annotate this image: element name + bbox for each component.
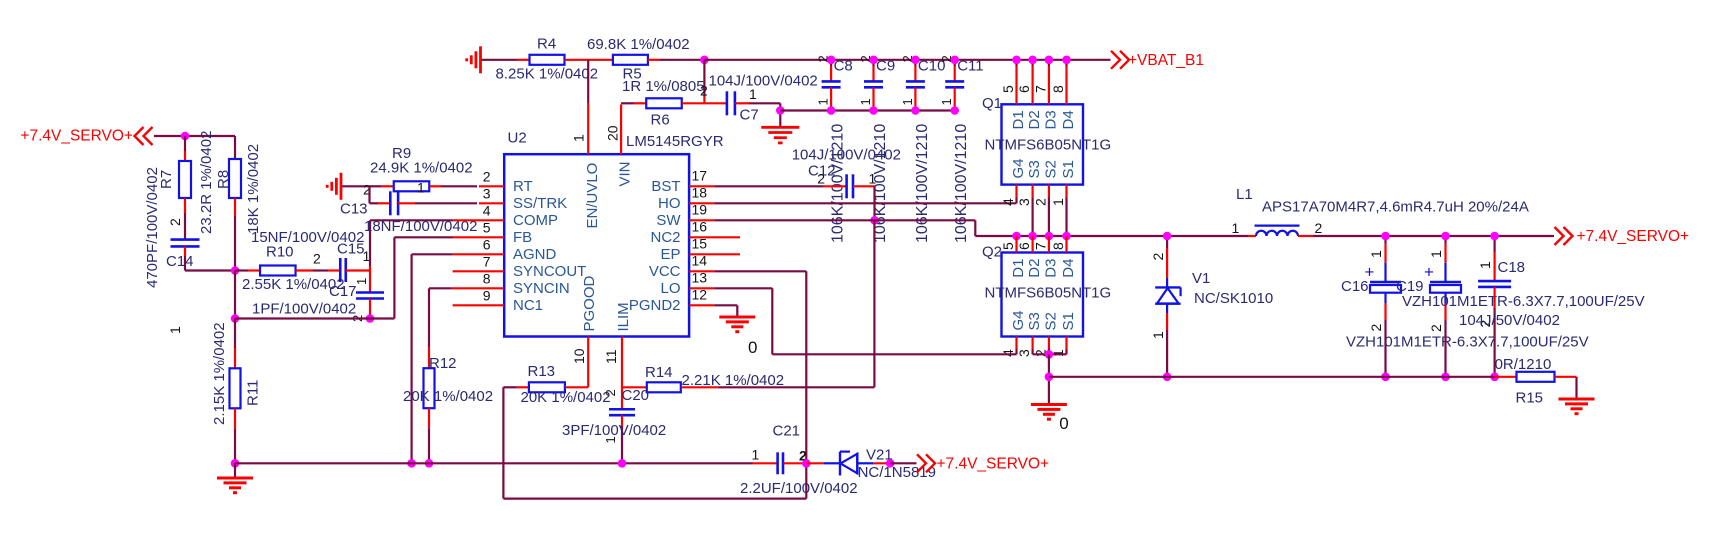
wire LO to Q2 gate xyxy=(714,288,1016,354)
junction Q1 pin 8 at VBAT rail xyxy=(1062,56,1071,65)
svg-text:R13: R13 xyxy=(528,363,556,380)
U2 pin 6 AGND xyxy=(453,236,557,263)
svg-text:ILIM: ILIM xyxy=(615,302,632,331)
resistor R7 xyxy=(158,131,215,240)
resistor R10 xyxy=(235,229,364,293)
Q2 pin 8 (drain) xyxy=(1050,236,1067,253)
svg-text:D1: D1 xyxy=(1010,110,1027,129)
svg-text:+VBAT_B1: +VBAT_B1 xyxy=(1128,52,1204,69)
svg-text:1: 1 xyxy=(1050,198,1066,206)
svg-text:RT: RT xyxy=(513,178,533,195)
svg-text:2: 2 xyxy=(167,218,183,226)
junction C18 top xyxy=(1490,232,1499,241)
svg-text:19: 19 xyxy=(692,201,708,217)
junction C11 top xyxy=(950,56,959,65)
wire FB node vertical xyxy=(234,271,236,319)
junction V1 bottom xyxy=(1163,373,1172,382)
svg-text:R8: R8 xyxy=(215,170,232,189)
svg-text:+7.4V_SERVO+: +7.4V_SERVO+ xyxy=(1577,228,1690,245)
svg-text:1: 1 xyxy=(900,98,915,105)
svg-text:15: 15 xyxy=(692,235,708,251)
U2 pin 19 SW xyxy=(656,201,714,229)
net label +7.4V_SERVO+ (left) xyxy=(20,127,152,145)
ground (R15) xyxy=(1559,399,1595,414)
svg-text:2: 2 xyxy=(1428,324,1444,332)
svg-text:VZH101M1ETR-6.3X7.7,100UF/25V: VZH101M1ETR-6.3X7.7,100UF/25V xyxy=(1402,293,1645,310)
svg-text:1: 1 xyxy=(1428,250,1444,258)
svg-text:SW: SW xyxy=(656,212,681,229)
svg-text:C11: C11 xyxy=(957,58,983,75)
svg-text:3: 3 xyxy=(1016,198,1032,206)
svg-text:D1: D1 xyxy=(1010,259,1027,278)
svg-text:S2: S2 xyxy=(1042,312,1059,330)
wire C7 to ground xyxy=(779,103,781,127)
svg-text:1: 1 xyxy=(1477,261,1493,269)
transistor Q1 NTMFS6B05NT1G xyxy=(982,95,1111,185)
junction C9 bottom xyxy=(869,106,878,115)
ground (bottom left) xyxy=(217,463,253,492)
svg-text:2: 2 xyxy=(1150,253,1166,261)
wire VCC to C21 node xyxy=(714,271,806,463)
U2 pin 8 SYNCIN xyxy=(451,270,569,297)
svg-text:1R 1%/0805: 1R 1%/0805 xyxy=(622,78,705,95)
svg-text:11: 11 xyxy=(603,349,619,364)
net label +7.4V_SERVO+ (right) xyxy=(1555,227,1690,245)
U2 pin 20 VIN xyxy=(605,105,634,187)
junction C16 top xyxy=(1381,232,1390,241)
capacitor C12 (bootstrap) xyxy=(714,147,901,221)
svg-text:1: 1 xyxy=(417,180,425,196)
resistor R5 xyxy=(587,36,704,83)
op-amp U2 LM5145RGYR (controller IC) xyxy=(504,130,724,337)
svg-text:8: 8 xyxy=(483,270,491,286)
svg-text:VZH101M1ETR-6.3X7.7,100UF/25V: VZH101M1ETR-6.3X7.7,100UF/25V xyxy=(1346,333,1589,350)
svg-text:1: 1 xyxy=(571,134,587,142)
capacitor C18 xyxy=(1459,236,1560,377)
junction FB/1PF node xyxy=(231,314,240,323)
svg-text:8: 8 xyxy=(1050,242,1066,250)
svg-text:106K/100V/1210: 106K/100V/1210 xyxy=(953,124,970,243)
transistor Q2 NTMFS6B05NT1G xyxy=(982,244,1111,337)
junction C20 at bottom rail xyxy=(618,459,627,468)
junction Q1 source pin 2 at SW xyxy=(1045,232,1054,241)
svg-text:1: 1 xyxy=(354,278,369,285)
capacitor C8 xyxy=(816,55,853,243)
junction C12 at SW wire xyxy=(870,216,879,225)
junction C17 at 1PF wire xyxy=(366,314,375,323)
Q2 pin 6 (drain) xyxy=(1016,236,1033,253)
svg-text:G4: G4 xyxy=(1010,310,1027,330)
Q1 pin 4 gate stub xyxy=(1000,185,1017,207)
svg-text:FB: FB xyxy=(513,229,532,246)
svg-text:APS17A70M4R7,4.6mR4.7uH 20%/24: APS17A70M4R7,4.6mR4.7uH 20%/24A xyxy=(1262,199,1529,216)
junction C19 top xyxy=(1441,232,1450,241)
Q2 pin 4 gate stub xyxy=(1000,337,1017,358)
svg-text:V1: V1 xyxy=(1192,270,1210,287)
junction C16 bottom xyxy=(1381,373,1390,382)
junction C19 bottom xyxy=(1441,373,1450,382)
svg-text:D3: D3 xyxy=(1042,110,1059,129)
U2 pin 4 COMP xyxy=(454,202,558,229)
svg-text:2: 2 xyxy=(700,83,708,99)
svg-text:20K 1%/0402: 20K 1%/0402 xyxy=(521,389,611,406)
svg-text:1: 1 xyxy=(816,98,831,105)
svg-text:1: 1 xyxy=(858,98,873,105)
resistor R12 xyxy=(403,288,493,463)
wire VOUT rail xyxy=(1313,235,1554,237)
junction C8 bottom xyxy=(827,106,836,115)
resistor R8 xyxy=(215,136,262,271)
junction C10 top xyxy=(911,56,920,65)
Q1 pin 7 (drain) xyxy=(1032,60,1049,105)
wire SW net xyxy=(714,220,1248,236)
U2 pin 10 PGOOD xyxy=(571,275,598,387)
wire PGND2 to ground xyxy=(714,305,737,317)
svg-text:5: 5 xyxy=(1000,242,1016,250)
svg-text:Q2: Q2 xyxy=(982,244,1002,261)
svg-text:1: 1 xyxy=(939,98,954,105)
junction C21/VCC node xyxy=(802,459,811,468)
resistor R6 xyxy=(621,60,708,129)
junction R12 at bottom rail xyxy=(425,459,434,468)
capacitor C13 xyxy=(340,186,477,235)
ground (C7 / input caps) xyxy=(761,127,799,143)
diode V1 NC/SK1010 xyxy=(1150,236,1273,377)
ground (R9 left) xyxy=(327,173,369,200)
junction C11 bottom xyxy=(950,106,959,115)
svg-text:2: 2 xyxy=(313,251,321,267)
U2 pin 15 EP xyxy=(660,235,740,263)
capacitor C16 (electrolytic) xyxy=(1341,236,1589,377)
junction Q2 D1 at SW xyxy=(1012,232,1021,241)
svg-text:20K 1%/0402: 20K 1%/0402 xyxy=(403,388,493,405)
svg-text:COMP: COMP xyxy=(513,212,558,229)
wire VBAT rail xyxy=(704,59,1110,61)
svg-text:L1: L1 xyxy=(1236,186,1253,203)
svg-text:2.15K 1%/0402: 2.15K 1%/0402 xyxy=(211,322,228,425)
svg-text:EN/UVLO: EN/UVLO xyxy=(584,163,601,229)
svg-text:10: 10 xyxy=(571,348,587,364)
resistor R13 xyxy=(503,363,610,406)
svg-text:0R/1210: 0R/1210 xyxy=(1495,356,1552,373)
wire COMP to compensation node xyxy=(370,220,454,266)
wire Q2 source to ground rail xyxy=(1048,354,1050,404)
svg-text:R4: R4 xyxy=(537,36,556,53)
Q1 pin 6 (drain) xyxy=(1016,60,1033,105)
svg-text:9: 9 xyxy=(483,287,491,303)
svg-text:LO: LO xyxy=(660,280,680,297)
Q1 pin 2 (source) xyxy=(1032,185,1049,237)
junction Q1 pin 5 at VBAT rail xyxy=(1012,56,1021,65)
capacitor C17 xyxy=(329,266,384,322)
svg-text:106K/100V/1210: 106K/100V/1210 xyxy=(914,124,931,243)
svg-text:3PF/100V/0402: 3PF/100V/0402 xyxy=(562,422,666,439)
junction Q2 sources xyxy=(1045,350,1054,359)
svg-text:NC1: NC1 xyxy=(513,297,543,314)
svg-text:D2: D2 xyxy=(1026,259,1043,278)
resistor R15 xyxy=(1495,356,1577,407)
svg-text:2.21K 1%/0402: 2.21K 1%/0402 xyxy=(682,372,785,389)
junction V1 top xyxy=(1163,232,1172,241)
svg-text:+: + xyxy=(1424,263,1434,282)
svg-text:HO: HO xyxy=(658,195,681,212)
svg-text:2: 2 xyxy=(1368,324,1384,332)
Q1 pin 3 (source) xyxy=(1016,185,1033,237)
svg-text:C8: C8 xyxy=(834,58,853,75)
wire +7.4V rail to R8 xyxy=(154,135,235,137)
svg-text:C17: C17 xyxy=(329,283,357,300)
svg-text:C7: C7 xyxy=(740,107,759,124)
svg-text:R10: R10 xyxy=(266,244,294,261)
svg-text:0: 0 xyxy=(748,338,757,357)
U2 pin 5 FB xyxy=(454,219,532,246)
svg-text:NTMFS6B05NT1G: NTMFS6B05NT1G xyxy=(985,137,1112,154)
Q1 pin 8 (drain) xyxy=(1050,60,1067,105)
svg-text:2: 2 xyxy=(1032,198,1048,206)
svg-text:17: 17 xyxy=(692,167,708,183)
svg-text:SYNCOUT: SYNCOUT xyxy=(513,263,586,280)
svg-text:LM5145RGYR: LM5145RGYR xyxy=(626,133,724,150)
svg-text:16: 16 xyxy=(692,218,708,234)
junction Q1 pin 7 at VBAT rail xyxy=(1045,56,1054,65)
wire 1PF net to FB xyxy=(235,237,454,318)
capacitor C14 xyxy=(144,167,235,334)
U2 pin 9 NC1 xyxy=(453,287,543,314)
svg-text:VIN: VIN xyxy=(617,161,634,186)
capacitor C10 xyxy=(900,55,946,243)
junction R5/R6 node xyxy=(700,56,709,65)
U2 pin 18 HO xyxy=(658,184,714,212)
svg-text:18K 1%/0402: 18K 1%/0402 xyxy=(245,144,262,234)
svg-text:C9: C9 xyxy=(876,58,895,75)
svg-text:NTMFS6B05NT1G: NTMFS6B05NT1G xyxy=(985,285,1112,302)
svg-text:5: 5 xyxy=(483,219,491,235)
wire EN/UVLO from R4/R5 junction xyxy=(587,60,589,128)
svg-text:G4: G4 xyxy=(1010,158,1027,178)
svg-text:PGOOD: PGOOD xyxy=(581,275,598,331)
ground (Q2 source) 0 xyxy=(1031,405,1069,434)
junction R11 at bottom rail xyxy=(231,459,240,468)
svg-text:2.2UF/100V/0402: 2.2UF/100V/0402 xyxy=(740,480,858,497)
net label +VBAT_B1 xyxy=(1111,51,1204,69)
svg-text:C18: C18 xyxy=(1498,259,1526,276)
capacitor C7 xyxy=(704,73,817,124)
svg-text:1: 1 xyxy=(869,170,877,186)
junction C7 ground node xyxy=(776,106,785,115)
junction Q1 source pin 3 at SW xyxy=(1028,232,1037,241)
svg-text:1: 1 xyxy=(1232,220,1240,236)
diode V21 NC/1N5819 xyxy=(806,447,936,481)
svg-text:R15: R15 xyxy=(1516,390,1544,407)
inductor L1 xyxy=(1232,186,1529,236)
U2 pin 12 PGND2 xyxy=(629,286,714,314)
Q1 pin 1 (source) xyxy=(1050,185,1067,237)
Q2 pin 2 (source) xyxy=(1032,337,1049,358)
svg-text:7: 7 xyxy=(483,253,491,269)
resistor R11 xyxy=(211,319,262,464)
U2 pin 14 VCC xyxy=(649,252,714,280)
svg-text:13: 13 xyxy=(692,269,708,285)
junction C18/R15 bottom xyxy=(1490,373,1499,382)
U2 pin 2 RT xyxy=(479,168,533,195)
svg-text:0: 0 xyxy=(1059,414,1068,433)
svg-text:20: 20 xyxy=(605,125,621,141)
Q2 pin 3 (source) xyxy=(1016,337,1033,358)
svg-text:7: 7 xyxy=(1032,242,1048,250)
svg-text:D4: D4 xyxy=(1060,259,1077,278)
svg-text:12: 12 xyxy=(692,286,708,302)
svg-text:C14: C14 xyxy=(166,253,194,270)
svg-text:3: 3 xyxy=(483,185,491,201)
resistor R14 xyxy=(622,220,874,392)
junction C10 bottom xyxy=(911,106,920,115)
svg-text:PGND2: PGND2 xyxy=(629,297,681,314)
wire input cap ground rail xyxy=(780,109,954,111)
svg-text:3: 3 xyxy=(1016,349,1032,357)
capacitor C20 xyxy=(562,387,666,463)
svg-text:D3: D3 xyxy=(1042,259,1059,278)
svg-text:C16: C16 xyxy=(1341,278,1369,295)
svg-text:R6: R6 xyxy=(651,112,670,129)
junction AGND at bottom rail xyxy=(407,459,416,468)
svg-text:1: 1 xyxy=(752,447,760,463)
capacitor C21 xyxy=(740,423,858,498)
svg-text:4: 4 xyxy=(1000,349,1016,357)
svg-text:104J/50V/0402: 104J/50V/0402 xyxy=(1459,312,1560,329)
svg-text:1: 1 xyxy=(1150,331,1166,339)
svg-text:D4: D4 xyxy=(1060,110,1077,129)
svg-text:S3: S3 xyxy=(1026,312,1043,330)
Q2 pin 7 (drain) xyxy=(1032,236,1049,253)
svg-text:1: 1 xyxy=(749,86,757,102)
svg-text:C21: C21 xyxy=(773,423,801,440)
svg-text:D2: D2 xyxy=(1026,110,1043,129)
svg-text:C20: C20 xyxy=(622,387,650,404)
Q1 pin 5 (drain) xyxy=(1000,60,1017,105)
svg-text:R11: R11 xyxy=(245,380,262,406)
svg-text:C15: C15 xyxy=(337,241,365,258)
svg-text:104J/100V/0402: 104J/100V/0402 xyxy=(792,147,901,164)
svg-text:S3: S3 xyxy=(1026,160,1043,178)
svg-text:470PF/100V/0402: 470PF/100V/0402 xyxy=(144,167,161,288)
svg-text:R14: R14 xyxy=(645,364,673,381)
junction V21 output xyxy=(886,459,895,468)
svg-text:24.9K 1%/0402: 24.9K 1%/0402 xyxy=(370,160,473,177)
svg-text:4: 4 xyxy=(1000,198,1016,206)
U2 pin 16 NC2 xyxy=(650,218,740,246)
svg-text:Q1: Q1 xyxy=(982,95,1002,112)
Q2 pin 1 (source) xyxy=(1050,337,1067,358)
svg-text:69.8K 1%/0402: 69.8K 1%/0402 xyxy=(587,36,690,53)
svg-text:106K/100V/1210: 106K/100V/1210 xyxy=(830,124,847,243)
U2 pin 1 EN/UVLO xyxy=(571,128,602,229)
svg-text:+7.4V_SERVO+: +7.4V_SERVO+ xyxy=(20,127,133,144)
wire AGND down to rail xyxy=(412,254,453,463)
junction C8 top xyxy=(827,56,836,65)
junction C9 top xyxy=(869,56,878,65)
capacitor C9 xyxy=(858,55,895,243)
capacitor C19 (electrolytic) xyxy=(1396,236,1645,377)
junction Q1 source pin 1 at SW xyxy=(1062,232,1071,241)
svg-text:2: 2 xyxy=(1315,220,1323,236)
junction at R7 branch xyxy=(181,132,190,141)
resistor R9 xyxy=(363,145,477,198)
svg-text:2: 2 xyxy=(817,170,825,186)
capacitor C15 xyxy=(313,241,371,282)
svg-text:4: 4 xyxy=(483,202,491,218)
svg-text:23.2R 1%/0402: 23.2R 1%/0402 xyxy=(198,131,215,234)
capacitor C11 xyxy=(939,55,983,243)
svg-text:U2: U2 xyxy=(508,130,527,147)
svg-text:EP: EP xyxy=(660,246,680,263)
wire bottom AGND rail xyxy=(235,462,753,464)
svg-text:2: 2 xyxy=(483,168,491,184)
svg-text:NC2: NC2 xyxy=(650,229,680,246)
svg-text:1PF/100V/0402: 1PF/100V/0402 xyxy=(252,301,356,318)
svg-text:18: 18 xyxy=(692,184,708,200)
junction Q2 source at output ground rail xyxy=(1045,373,1054,382)
svg-text:5: 5 xyxy=(1000,85,1016,93)
ground (top left, sideways) xyxy=(467,46,518,73)
svg-text:8: 8 xyxy=(1050,85,1066,93)
wire output ground rail xyxy=(1049,376,1495,378)
svg-text:R12: R12 xyxy=(429,355,457,372)
svg-text:BST: BST xyxy=(651,178,680,195)
svg-text:6: 6 xyxy=(1016,85,1032,93)
svg-text:NC/SK1010: NC/SK1010 xyxy=(1194,290,1273,307)
svg-text:6: 6 xyxy=(1016,242,1032,250)
svg-text:S2: S2 xyxy=(1042,160,1059,178)
svg-text:C13: C13 xyxy=(340,201,368,218)
wire Q2 source bus xyxy=(1033,353,1067,355)
svg-text:104J/100V/0402: 104J/100V/0402 xyxy=(709,73,818,90)
U2 pin 17 BST xyxy=(651,167,714,195)
resistor R4 xyxy=(496,36,614,83)
svg-text:S1: S1 xyxy=(1060,312,1077,330)
U2 pin 11 ILIM xyxy=(603,302,632,409)
svg-text:SS/TRK: SS/TRK xyxy=(513,195,567,212)
svg-text:S1: S1 xyxy=(1060,160,1077,178)
net label +7.4V_SERVO+ (bottom) xyxy=(890,454,1049,472)
svg-text:1: 1 xyxy=(1368,250,1384,258)
wire R13 to VCC loop xyxy=(503,387,806,498)
svg-text:+7.4V_SERVO+: +7.4V_SERVO+ xyxy=(937,455,1050,472)
Q2 pin 5 (drain) xyxy=(1000,236,1017,253)
junction Q1 pin 6 at VBAT rail xyxy=(1028,56,1037,65)
U2 pin 13 LO xyxy=(660,269,714,297)
U2 pin 3 SS/TRK xyxy=(479,185,567,212)
svg-text:6: 6 xyxy=(483,236,491,252)
svg-text:7: 7 xyxy=(1032,85,1048,93)
svg-text:SYNCIN: SYNCIN xyxy=(513,280,570,297)
svg-text:AGND: AGND xyxy=(513,246,557,263)
svg-text:1: 1 xyxy=(167,326,183,334)
wire HO to Q1 gate xyxy=(714,198,1016,204)
ground (PGND2) 0 xyxy=(719,317,757,357)
svg-text:8.25K 1%/0402: 8.25K 1%/0402 xyxy=(496,66,599,83)
svg-text:14: 14 xyxy=(692,252,708,268)
svg-text:2: 2 xyxy=(603,389,618,396)
svg-text:VCC: VCC xyxy=(649,263,681,280)
U2 pin 7 SYNCOUT xyxy=(453,253,587,280)
junction R8/R10/C14 node xyxy=(231,266,240,275)
